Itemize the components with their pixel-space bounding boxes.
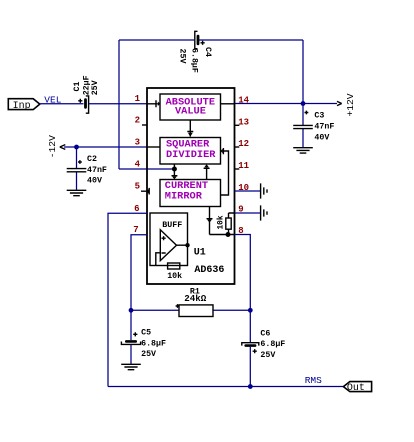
svg-text:13: 13 [238,117,249,127]
wire right vertical +12V rail [302,40,304,104]
svg-text:47nF: 47nF [87,166,107,175]
svg-text:C5: C5 [141,329,151,338]
ground pin9 [261,205,267,220]
svg-text:4: 4 [135,160,141,170]
svg-text:C1: C1 [73,82,82,92]
svg-text:24kΩ: 24kΩ [184,293,207,304]
svg-text:10k: 10k [218,215,226,229]
svg-text:25V: 25V [178,49,187,64]
wire pin8 down [235,235,251,311]
node junction C6 bottom [248,384,253,389]
arrow pin1 into ABSOLUTE VALUE [147,100,160,107]
svg-text:U1: U1 [194,247,206,258]
supply -12V arrow [47,135,66,158]
node junction R1 left [129,308,134,313]
wire Inp to C1 [40,103,84,105]
svg-text:47nF: 47nF [314,123,334,132]
wire pin9 to ground [235,212,261,214]
connector Out [343,382,371,394]
svg-text:VALUE: VALUE [175,106,206,118]
capacitor C3 [293,104,334,148]
svg-text:C2: C2 [87,155,97,164]
ground C2 [67,190,87,195]
svg-text:14: 14 [238,95,249,105]
svg-text:2: 2 [135,116,140,126]
svg-text:BUFF: BUFF [162,221,182,230]
wire pin3 inside [147,146,160,148]
node junction C2 [74,145,79,150]
capacitor C2 [67,147,107,190]
svg-text:1: 1 [135,94,141,104]
wire top rail C4 [119,39,303,41]
wire pin7 down [131,235,147,311]
node junction R1 right [248,308,253,313]
arrow CURRENT MIRROR down to pin8 net [207,207,213,235]
svg-text:MIRROR: MIRROR [165,191,203,203]
wire left vertical to pin4 [119,40,174,169]
svg-text:Inp: Inp [13,101,31,112]
capacitor C4 [178,31,212,73]
svg-text:DIVIDIER: DIVIDIER [166,149,216,161]
svg-text:22µF: 22µF [82,75,91,95]
pin stub 11 [235,168,240,170]
capacitor C5 [121,310,166,364]
svg-text:11: 11 [238,161,249,171]
capacitor C1 [73,75,100,113]
ground pin10 [261,183,267,198]
svg-text:25V: 25V [91,80,100,95]
connector Inp [8,99,40,112]
svg-text:C4: C4 [203,47,212,57]
ground C5 [121,364,141,369]
arrow CURRENT MIRROR to SQUARER [204,164,210,179]
resistor R1 24k [131,288,250,317]
node pin4 junction [172,167,177,172]
block SQUARER DIVIDIER [160,138,221,165]
wire pin3 to -12V [64,146,147,148]
supply +12V arrow [337,93,356,116]
svg-text:25V: 25V [141,350,156,359]
wire pin14 to +12V [235,103,338,105]
svg-text:5: 5 [135,182,140,192]
svg-text:10k: 10k [167,271,182,281]
svg-text:-12V: -12V [47,135,58,158]
svg-text:+12V: +12V [345,93,356,116]
resistor 10k internal vertical [210,213,235,235]
svg-text:12: 12 [238,139,249,149]
node junction pin14/+12V [301,101,306,106]
pin numbers left [133,94,140,235]
block BUFF box [150,213,188,266]
block ABSOLUTE VALUE [160,94,221,120]
arrow ABSOLUTE to SQUARER [187,120,193,137]
ground C3 [293,148,313,153]
svg-text:40V: 40V [87,177,102,186]
node junction pin8 internal [226,232,231,237]
svg-text:6: 6 [134,204,139,214]
svg-text:7: 7 [133,225,138,235]
svg-text:40V: 40V [314,133,329,142]
op-amp BUFF [156,221,190,265]
arrow feedback into SQUARER right [220,148,228,195]
arrow pin4 to CURRENT MIRROR [172,164,178,179]
pin stub 12 [235,146,240,148]
svg-text:Out: Out [347,383,365,394]
svg-text:C3: C3 [314,112,324,121]
svg-text:6.8µF: 6.8µF [260,340,285,349]
wire bottom rail RMS [108,386,343,388]
pin numbers right [238,95,249,236]
svg-text:AD636: AD636 [194,265,224,276]
svg-text:RMS: RMS [305,375,322,386]
wire pin14 inside [221,103,235,105]
svg-text:3: 3 [135,138,140,148]
resistor feedback 10k [167,263,182,281]
wire C1 to pin1 [89,103,147,105]
pin stub 13 [235,124,240,126]
svg-text:6.8µF: 6.8µF [189,48,198,73]
arrow pin5 out [141,188,149,195]
pin stub 2 [142,124,147,126]
wire pin6 loop [108,213,147,386]
svg-text:6.8µF: 6.8µF [141,339,166,348]
wire pin10 to ground [235,190,261,192]
capacitor C6 [242,310,286,386]
IC U1 outer box [147,88,235,284]
svg-text:25V: 25V [260,351,275,360]
svg-text:C6: C6 [260,329,270,338]
block CURRENT MIRROR [160,180,221,207]
